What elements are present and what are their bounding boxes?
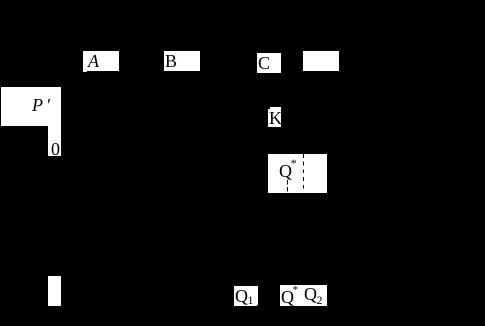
small white tab at bottom-left of box A [83,70,87,72]
clipped bottom-right corner of box Q1 [257,305,259,307]
label box B [164,51,200,71]
label C text [258,54,270,72]
label Q1 text [235,287,248,305]
clipped top-left corner of box K [268,107,270,109]
label Q text of Q2 [304,285,317,303]
origin 0 text [51,140,60,158]
label A text [88,52,99,70]
P' label box [1,87,61,126]
label K text [269,109,282,127]
label Q text of Q* [281,288,294,306]
label box K [268,107,281,127]
label P' text [32,96,43,114]
asterisk superscript of Q* [291,157,297,169]
subscript 1 of Q1 [248,294,254,306]
prime mark of P' [46,96,50,114]
label box Q* Q2 [280,285,327,306]
Q* label box with dashed lines [268,154,327,193]
axis strip below P' box [48,126,61,156]
asterisk superscript of Q* label [293,285,299,296]
small blank rectangle on left axis [48,276,61,306]
label B text [165,52,177,70]
label Q* text [279,162,292,180]
label box A [83,51,119,71]
empty label box [303,51,339,71]
long dashed line inside Q* box [303,154,304,189]
label box Q1 [234,286,258,306]
short dashed line under Q* [287,180,288,191]
label box C [257,53,281,73]
subscript 2 of Q2 [317,294,323,306]
